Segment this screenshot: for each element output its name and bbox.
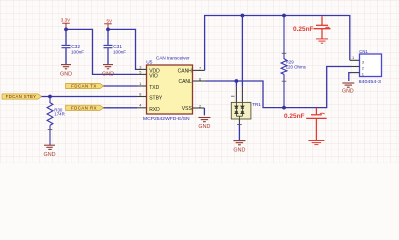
wire C31 top xyxy=(107,29,109,45)
svg-text:GND: GND xyxy=(342,89,354,95)
svg-text:5: 5 xyxy=(139,69,141,74)
port FDCAN TX xyxy=(66,83,104,88)
pin RXD (4) xyxy=(137,107,147,109)
wire TX xyxy=(104,85,138,87)
TR1 pin tick xyxy=(231,95,235,97)
svg-text:100nF: 100nF xyxy=(113,49,126,54)
CN1 pin 3 xyxy=(350,59,360,61)
svg-text:120 Ohms: 120 Ohms xyxy=(286,64,307,69)
ground below VSS xyxy=(198,118,210,122)
pin VIO (5) xyxy=(137,73,147,75)
pin CANH (7) xyxy=(193,69,205,71)
capacitor C32 xyxy=(62,45,71,47)
R30 pin tick xyxy=(48,128,53,130)
svg-text:3.3V: 3.3V xyxy=(61,18,71,23)
svg-text:RXD: RXD xyxy=(149,107,160,113)
ground below bottom cap xyxy=(308,141,324,145)
svg-text:CANH: CANH xyxy=(178,68,193,74)
wire 5V rail to VDD xyxy=(108,29,137,69)
ground below CN1 xyxy=(342,83,354,87)
power port 3V3 xyxy=(62,23,70,29)
svg-text:GND: GND xyxy=(198,124,210,130)
svg-text:STBY: STBY xyxy=(149,96,163,102)
svg-text:GND: GND xyxy=(233,147,245,153)
svg-text:7: 7 xyxy=(199,66,201,71)
capacitor C31 xyxy=(104,45,113,47)
pin STBY (8) xyxy=(137,96,147,98)
port FDCAN RX xyxy=(66,105,104,110)
svg-text:2: 2 xyxy=(199,103,201,108)
svg-text:1: 1 xyxy=(139,81,141,86)
capacitor 0.25nF top xyxy=(314,16,331,38)
CN1 pin 1 xyxy=(351,72,360,74)
pin VDD (3) xyxy=(137,68,147,70)
svg-text:GND: GND xyxy=(60,71,72,77)
junction TR1 left leg xyxy=(235,79,239,83)
wire VSS down xyxy=(203,108,205,115)
svg-text:840454-3: 840454-3 xyxy=(359,79,382,85)
svg-text:CAN transceiver: CAN transceiver xyxy=(156,55,190,60)
svg-text:FDCAN TX: FDCAN TX xyxy=(71,84,96,89)
svg-text:0.25nF: 0.25nF xyxy=(293,27,314,33)
sheet background xyxy=(0,0,399,163)
svg-text:5V: 5V xyxy=(106,18,113,23)
pin VSS (2) xyxy=(193,107,205,109)
svg-text:TR1: TR1 xyxy=(252,102,261,107)
svg-text:8: 8 xyxy=(139,91,141,96)
pin CANL (6) xyxy=(193,80,206,82)
wire STBY xyxy=(42,96,138,98)
port FDCAN STBY xyxy=(2,94,42,99)
junction R29 on rail xyxy=(282,14,286,18)
wire TR1 right leg from rail xyxy=(241,16,243,87)
power port 5V xyxy=(104,24,112,30)
svg-text:CANL: CANL xyxy=(178,79,192,85)
svg-text:VIO: VIO xyxy=(149,74,158,80)
svg-text:FDCAN STBY: FDCAN STBY xyxy=(6,94,37,99)
TR1 bottom pin xyxy=(238,119,240,125)
junction R30 xyxy=(48,95,52,99)
svg-text:U5: U5 xyxy=(146,60,152,66)
svg-text:CN1: CN1 xyxy=(359,49,368,54)
ground below top cap xyxy=(316,39,328,43)
ground below C32 xyxy=(61,65,71,69)
pin TXD (1) xyxy=(137,85,147,87)
junction 3V3 xyxy=(64,28,68,32)
capacitor 0.25nF bottom xyxy=(306,108,326,141)
connector CN1 xyxy=(360,54,382,77)
ground below R30 xyxy=(44,145,55,149)
svg-text:6: 6 xyxy=(199,76,201,81)
junction R29 bottom xyxy=(282,106,286,110)
svg-text:TXD: TXD xyxy=(149,85,159,91)
wire CANL xyxy=(206,67,352,108)
resistor R30 xyxy=(47,97,53,146)
wire C32 top xyxy=(65,29,67,45)
svg-text:0.25nF: 0.25nF xyxy=(284,114,305,120)
wire 3V3 rail to VIO xyxy=(66,29,137,74)
TVS TR1 xyxy=(231,102,251,119)
wire CANH to rail xyxy=(205,16,350,71)
ground below C31 xyxy=(103,65,113,69)
wire TR1 left leg from CANL xyxy=(235,81,237,87)
svg-text:100nF: 100nF xyxy=(71,49,84,54)
svg-text:MCP2542WFD-E/SN: MCP2542WFD-E/SN xyxy=(143,116,190,121)
junction 5V xyxy=(106,28,110,32)
svg-text:GND: GND xyxy=(44,152,56,158)
svg-text:GND: GND xyxy=(102,71,114,77)
svg-text:1: 1 xyxy=(352,55,354,60)
R29 pin ticks xyxy=(282,52,287,54)
TR1 pin stubs top xyxy=(235,87,237,103)
wire RX xyxy=(104,107,138,109)
svg-text:FDCAN RX: FDCAN RX xyxy=(71,105,97,110)
ground below TR1 xyxy=(233,141,245,145)
resistor R29 xyxy=(281,16,287,108)
junction TR1 leg on rail xyxy=(241,14,245,18)
CN1 pin 2 xyxy=(351,66,360,68)
wire CN1 pin1 to ground xyxy=(349,73,351,81)
svg-text:174R: 174R xyxy=(54,112,65,117)
wire TR1 to ground xyxy=(238,125,240,141)
wire C32 bottom xyxy=(65,48,67,64)
wire C31 bottom xyxy=(107,48,109,64)
IC U5 MCP2542FD-E/SN xyxy=(147,65,193,114)
svg-text:VSS: VSS xyxy=(182,106,193,112)
